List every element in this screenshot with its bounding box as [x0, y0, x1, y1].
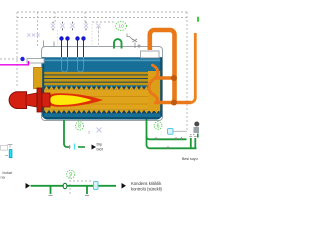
svg-text:kontrolü (sürekli): kontrolü (sürekli): [131, 187, 163, 192]
burner scroll: [9, 92, 26, 109]
wire connector x98.5b: [98, 30, 100, 47]
feed branch vertical 2: [194, 138, 196, 148]
svg-text:8: 8: [78, 124, 81, 130]
svg-text:9: 9: [69, 172, 72, 178]
wire dashed V x37.5: [37, 12, 39, 47]
circled 10: [116, 22, 127, 31]
flame yellow core: [50, 95, 92, 105]
small outlined box left: [1, 146, 8, 151]
conductivity sensor box: [168, 129, 174, 135]
feed piping tee: [147, 120, 187, 140]
wire dashed H y22: [92, 21, 115, 23]
boiler top small fittings: [44, 41, 55, 47]
sensor wire: [173, 130, 187, 132]
steam dome plate: [141, 51, 160, 58]
flue connection upper: [157, 76, 175, 79]
flue connection lower: [156, 101, 192, 104]
zigzag bottom navy shadow: [44, 110, 160, 113]
glyph near 8: [97, 128, 102, 133]
green tick top right: [197, 17, 199, 23]
flame red envelope: [47, 93, 104, 107]
feed water inlet pipe: [27, 59, 44, 64]
wire dashed top H1: [17, 11, 187, 13]
header drop 2: [86, 186, 88, 194]
wire connector x92: [91, 24, 93, 47]
svg-text:Dip: Dip: [97, 143, 103, 147]
header drop 1: [50, 186, 52, 194]
furnace gold band: [44, 87, 160, 113]
boiler water body: [0, 0, 1, 1]
tube zone navy backing: [43, 72, 148, 85]
wire dashed V x98.5: [98, 27, 100, 47]
pipe joint upper: [171, 75, 177, 81]
feed line magenta: [0, 61, 29, 65]
blowdown pipe left: [64, 120, 69, 147]
header sensor box: [94, 182, 99, 190]
burner flange: [37, 88, 42, 112]
wire dashed left V x17: [16, 12, 18, 88]
bottom header arrow left: [26, 183, 31, 189]
wire dashed bottom V x70: [69, 176, 71, 196]
boiler shell right edge: [160, 57, 162, 116]
wire dashed V x85: [84, 12, 86, 24]
rear reversal chamber block: [148, 71, 161, 111]
wire connector x57.5: [57, 30, 59, 47]
svg-text:Kondens kritiklik: Kondens kritiklik: [131, 181, 162, 186]
valve stem ticks: [53, 22, 86, 30]
blowdown cyan tick: [74, 144, 76, 150]
drop end caps: [49, 195, 90, 197]
control line frame top: [0, 12, 187, 196]
fitting right of siphon: [138, 45, 141, 49]
valve glyph row: [27, 24, 100, 37]
circled 6: [154, 122, 162, 130]
header valve circle: [63, 183, 67, 188]
boiler shell left edge: [42, 57, 44, 116]
boiler shell outline: [42, 47, 163, 121]
svg-text:2: 2: [88, 130, 91, 135]
furnace top zigzag: [44, 86, 148, 90]
water surface light streak: [43, 60, 162, 62]
svg-text:buhar: buhar: [3, 171, 13, 175]
feed pump motor: [194, 122, 199, 127]
circled 9: [67, 170, 75, 178]
feed stub right: [197, 134, 199, 138]
svg-text:Besi suyu: Besi suyu: [182, 157, 198, 161]
fire tube stripes: [43, 72, 148, 85]
blowdown green dash: [78, 146, 85, 148]
svg-text:blöf: blöf: [97, 147, 104, 151]
probe U tube pair 1: [62, 57, 68, 72]
furnace bottom zigzag: [44, 110, 160, 113]
furnace inner streaks: [44, 97, 160, 105]
blowdown valve glyph: [68, 145, 71, 149]
sample cooler cyan bar: [9, 150, 12, 158]
wire dashed top H2: [17, 17, 187, 19]
wire dashed right V x187: [186, 12, 188, 131]
wire dashed H to blue dot: [0, 58, 20, 60]
burner cone: [26, 93, 37, 107]
boiler shell bottom edge: [42, 115, 162, 120]
svg-text:6: 6: [157, 123, 160, 129]
bottom header arrow right: [122, 183, 127, 189]
rear reversal S-pipe: [149, 65, 158, 102]
level gauge siphon green: [114, 39, 122, 48]
wire dashed V x55: [54, 12, 56, 24]
svg-text:10: 10: [118, 24, 124, 29]
sample marks: [5, 145, 13, 156]
bottom blowdown header: [31, 185, 117, 187]
wire dashed bottom H y181: [73, 180, 92, 182]
probe U tube pair 2: [78, 57, 84, 72]
chimney riser: [191, 33, 196, 103]
circled 8: [75, 122, 83, 130]
arrow dip blowdown: [92, 145, 97, 150]
safety valve glyph: [127, 34, 137, 49]
steam pipe inverted U: [150, 30, 175, 103]
left small valve cluster: [27, 33, 30, 36]
feed piping bypass: [147, 136, 197, 148]
front smokebox block: [34, 68, 44, 89]
probe stems: [62, 40, 84, 57]
node blue dot: [20, 57, 24, 61]
feed valve glyphs: [155, 135, 197, 150]
svg-text:na: na: [1, 176, 6, 180]
feed branch vertical: [190, 138, 192, 148]
pipe joint lower: [171, 100, 177, 106]
feed pump body: [194, 127, 200, 133]
burner nozzle: [42, 93, 50, 107]
zigzag top navy shadow: [44, 87, 148, 90]
probe heads: [59, 36, 85, 40]
